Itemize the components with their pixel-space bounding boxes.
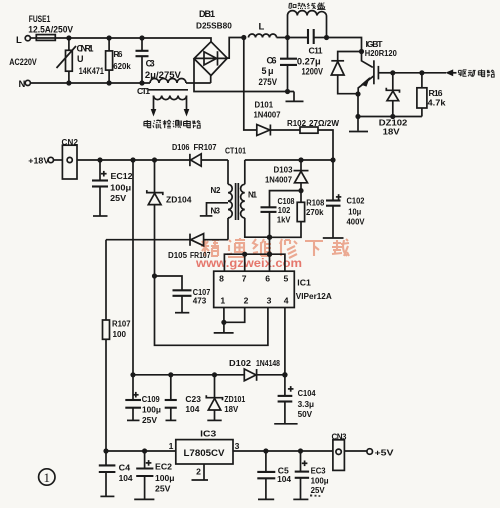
svg-text:C4: C4: [119, 463, 131, 473]
svg-text:1N4148: 1N4148: [256, 358, 280, 368]
svg-text:CT101: CT101: [225, 145, 246, 155]
resistor R108: [270, 191, 325, 238]
zener ZD101: [206, 375, 245, 421]
svg-text:ZD104: ZD104: [166, 194, 192, 204]
zener ZD104: [147, 160, 192, 276]
wire VDD rail: [133, 374, 244, 376]
speck marks: [310, 495, 320, 497]
wire L line to bridge: [55, 38, 211, 42]
svg-text:5: 5: [284, 273, 289, 283]
wire VDD link x133: [132, 160, 134, 375]
node IGBT emitter: [355, 91, 360, 96]
terminal +5V: [344, 447, 393, 457]
wire drain bus: [224, 254, 285, 271]
resistor R16: [417, 73, 446, 117]
wire L input: [30, 37, 36, 39]
capacitor EC12: [92, 160, 133, 216]
svg-text:3: 3: [235, 441, 240, 451]
svg-text:275V: 275V: [259, 77, 278, 87]
svg-text:C6: C6: [267, 56, 277, 66]
svg-text:5μ: 5μ: [262, 66, 274, 76]
capacitor C11: [297, 29, 327, 77]
diode D102: [229, 358, 285, 381]
node IGBT collector: [359, 49, 364, 54]
svg-text:D102: D102: [229, 358, 251, 368]
svg-text:10μ: 10μ: [348, 207, 361, 217]
svg-text:100: 100: [113, 329, 127, 339]
svg-text:DB1: DB1: [199, 9, 215, 19]
transistor IGBT H20R120: [358, 39, 397, 94]
svg-text:AC220V: AC220V: [9, 57, 37, 67]
svg-text:+18V: +18V: [28, 156, 49, 166]
ground symbol HV minus: [286, 92, 304, 102]
wire 18V rail: [77, 159, 190, 161]
svg-text:N2: N2: [211, 186, 222, 195]
node EC3: [298, 448, 303, 453]
node gate-DZ102: [390, 70, 395, 75]
svg-text:ZD101: ZD101: [224, 394, 245, 404]
svg-text:R107: R107: [112, 319, 131, 329]
svg-text:104: 104: [277, 474, 291, 484]
svg-text:R16: R16: [429, 88, 443, 98]
svg-text:270k: 270k: [306, 207, 324, 217]
wire choke to C11: [277, 37, 309, 39]
node D103 bottom: [298, 188, 303, 193]
note circled 1: [39, 469, 55, 485]
transformer CT101 core: [236, 183, 239, 220]
node R107 bottom: [103, 448, 108, 453]
svg-text:VIPer12A: VIPer12A: [296, 291, 332, 301]
op-amp IC1 VIPer12A: [214, 271, 332, 307]
wire clamp to drain: [269, 237, 271, 254]
node L-C3: [139, 35, 144, 40]
capacitor C6: [259, 38, 298, 92]
resistor R102: [287, 118, 340, 160]
node N-C3: [139, 80, 144, 85]
svg-text:R108: R108: [306, 197, 324, 207]
svg-text:25V: 25V: [155, 484, 171, 494]
node L-CNR1: [66, 35, 71, 40]
node bridge plus output: [241, 35, 246, 40]
capacitor C109: [125, 375, 161, 425]
wire 5V output rail: [233, 450, 333, 452]
svg-text:FR107: FR107: [194, 142, 217, 152]
varistor CNR1: [57, 38, 104, 83]
diode IGBT antiparallel: [331, 52, 361, 94]
capacitor C104: [274, 375, 316, 424]
resistor R107: [103, 240, 131, 451]
diode D105: [106, 234, 228, 260]
svg-text:N: N: [19, 79, 26, 90]
node N-CNR1: [66, 80, 71, 85]
svg-text:C11: C11: [309, 46, 323, 56]
node DZ102 bottom: [390, 114, 395, 119]
zener DZ102: [379, 73, 408, 137]
svg-text:18V: 18V: [224, 404, 238, 414]
svg-text:1: 1: [220, 295, 225, 305]
svg-text:CN2: CN2: [62, 138, 79, 147]
wire pin6 drop: [269, 254, 271, 271]
current transformer CT1 primary: [137, 79, 211, 97]
svg-text:25V: 25V: [142, 415, 157, 425]
svg-text:2: 2: [244, 295, 249, 305]
wire N line: [30, 82, 150, 84]
connector CN2: [62, 138, 79, 179]
svg-text:0.27μ: 0.27μ: [297, 57, 321, 67]
capacitor C107: [155, 276, 211, 313]
connector CN3: [332, 433, 348, 471]
svg-text:1: 1: [169, 441, 174, 451]
node ZD104: [152, 157, 157, 162]
CT1 core: [148, 89, 188, 91]
node C102 top: [330, 157, 335, 162]
diode D103: [265, 160, 309, 191]
node drain link: [267, 252, 272, 257]
label 电流检测电路: [144, 120, 201, 129]
wire bridge plus riser: [227, 38, 244, 59]
node VDD link: [130, 157, 135, 162]
node gate-R16: [419, 70, 424, 75]
node pin7: [242, 252, 247, 257]
wire bridge minus drop to ground bus: [194, 59, 294, 92]
svg-text:100μ: 100μ: [155, 473, 175, 483]
node L-R6: [107, 35, 112, 40]
wire D101 feed from plus bus: [244, 38, 257, 131]
bridge rectifier DB1: [194, 9, 232, 76]
wire HV rail: [245, 159, 333, 161]
svg-text:C104: C104: [298, 388, 316, 398]
terminal N: [19, 79, 31, 90]
svg-text:3.3μ: 3.3μ: [298, 399, 315, 409]
node ZD101 top: [212, 372, 217, 377]
wire emitter down: [357, 94, 359, 117]
fuse FUSE1: [28, 14, 73, 40]
node VDD rail left: [130, 372, 135, 377]
capacitor C23: [165, 375, 201, 421]
wire pin7 drop: [244, 254, 246, 271]
drive arrow 驱动电路: [445, 69, 494, 77]
svg-text:4.7k: 4.7k: [428, 98, 446, 108]
node heater right: [324, 35, 329, 40]
CT1 secondary with arrows: [151, 96, 190, 117]
svg-text:D105: D105: [168, 250, 187, 260]
svg-text:EC12: EC12: [111, 171, 133, 181]
svg-text:50V: 50V: [298, 409, 313, 419]
svg-text:27Ω/2W: 27Ω/2W: [309, 118, 340, 128]
svg-text:C109: C109: [142, 394, 160, 404]
svg-text:www.gzweix.com: www.gzweix.com: [195, 256, 302, 270]
watermark 精通维修下载: [201, 238, 349, 258]
svg-text:7: 7: [242, 273, 247, 283]
svg-text:IC1: IC1: [297, 277, 311, 287]
svg-text:C3: C3: [146, 59, 155, 69]
svg-text:4: 4: [284, 295, 289, 305]
svg-text:100μ: 100μ: [110, 182, 131, 192]
node D103 top: [298, 157, 303, 162]
wire emitter rail: [358, 116, 422, 118]
terminal +18V: [28, 156, 62, 166]
svg-text:L7805CV: L7805CV: [184, 448, 225, 458]
capacitor C102: [323, 160, 365, 238]
svg-text:FR107: FR107: [190, 250, 211, 260]
svg-text:1N4007: 1N4007: [254, 110, 281, 120]
svg-text:1: 1: [44, 470, 51, 485]
ground IGBT emitter: [349, 117, 368, 132]
svg-text:1200V: 1200V: [302, 67, 324, 77]
diode D101: [254, 100, 301, 136]
svg-text:L: L: [259, 22, 265, 33]
svg-text:CN3: CN3: [332, 433, 348, 442]
wire N riser to bridge bottom corner: [210, 75, 212, 83]
node C23 top: [168, 372, 173, 377]
ground IC3 pin2: [192, 464, 209, 480]
svg-text:620k: 620k: [113, 61, 131, 71]
svg-text:1kV: 1kV: [277, 215, 291, 225]
wire pin1 pin2 to ground: [224, 308, 245, 323]
svg-text:N1: N1: [248, 191, 258, 200]
svg-text:L: L: [16, 35, 22, 46]
svg-text:H20R120: H20R120: [365, 48, 397, 58]
node pin1-2 junction: [221, 320, 226, 325]
node EC12: [97, 157, 102, 162]
node heater left: [285, 35, 290, 40]
node EC2: [142, 448, 147, 453]
transformer CT101 tap N3: [200, 203, 228, 216]
node emitter rail: [355, 114, 360, 119]
svg-text:R102: R102: [287, 118, 306, 128]
svg-text:CNR1: CNR1: [77, 44, 94, 54]
node VDD C104: [282, 372, 287, 377]
terminal L: [16, 35, 30, 46]
svg-text:U: U: [77, 54, 84, 64]
svg-text:CT1: CT1: [137, 86, 150, 96]
svg-text:473: 473: [193, 295, 207, 305]
transformer CT101 winding N2: [211, 160, 233, 240]
svg-text:25V: 25V: [311, 485, 325, 495]
svg-text:+5V: +5V: [375, 447, 394, 457]
svg-text:R6: R6: [114, 50, 124, 59]
node C6 bottom on ground bus: [285, 89, 290, 94]
svg-text:IC3: IC3: [200, 429, 216, 439]
regulator IC3 L7805CV: [169, 429, 240, 465]
ground IC1 source: [214, 322, 234, 333]
svg-text:100μ: 100μ: [142, 405, 161, 415]
svg-text:25V: 25V: [110, 193, 126, 203]
svg-text:400V: 400V: [347, 216, 365, 226]
svg-text:8: 8: [219, 273, 224, 283]
svg-text:EC3: EC3: [311, 465, 326, 475]
node N-R6: [107, 80, 112, 85]
svg-text:D101: D101: [255, 100, 274, 110]
svg-text:N3: N3: [211, 207, 221, 216]
capacitor EC2: [134, 451, 174, 499]
svg-text:3: 3: [267, 295, 272, 305]
wire gate line: [393, 72, 446, 74]
svg-text:FUSE1: FUSE1: [29, 14, 51, 24]
svg-text:14K471: 14K471: [79, 66, 104, 76]
capacitor EC3: [293, 451, 328, 499]
svg-text:C23: C23: [185, 394, 201, 404]
svg-text:12.5A/250V: 12.5A/250V: [28, 25, 73, 35]
node clamp junction: [267, 235, 272, 240]
wire ZD104 to pin3: [155, 276, 268, 345]
wire 5V input rail: [106, 450, 176, 452]
svg-text:1N4007: 1N4007: [265, 174, 292, 184]
resistor R6: [106, 38, 131, 83]
wire to IGBT collector: [327, 38, 362, 52]
svg-text:18V: 18V: [383, 127, 400, 137]
capacitor C4: [99, 451, 133, 496]
inductor L choke: [249, 22, 277, 38]
capacitor C108: [261, 191, 302, 238]
svg-text:6: 6: [265, 273, 270, 283]
svg-text:D25SB80: D25SB80: [196, 21, 232, 31]
svg-text:D103: D103: [274, 164, 293, 174]
capacitor C5: [257, 451, 291, 499]
svg-text:2: 2: [196, 467, 201, 477]
wire pin4 VDD drop: [284, 308, 286, 375]
svg-text:D106: D106: [172, 142, 190, 152]
heating coil 加热线盘: [288, 3, 327, 38]
transformer CT101 winding N1: [241, 160, 270, 237]
svg-text:104: 104: [119, 473, 133, 483]
node C5: [263, 448, 268, 453]
capacitor C3: [136, 38, 181, 83]
svg-text:104: 104: [185, 404, 199, 414]
diode D106: [172, 142, 228, 166]
node ZD104-C107: [152, 273, 157, 278]
svg-text:EC2: EC2: [155, 462, 172, 472]
svg-text:C102: C102: [347, 196, 365, 206]
